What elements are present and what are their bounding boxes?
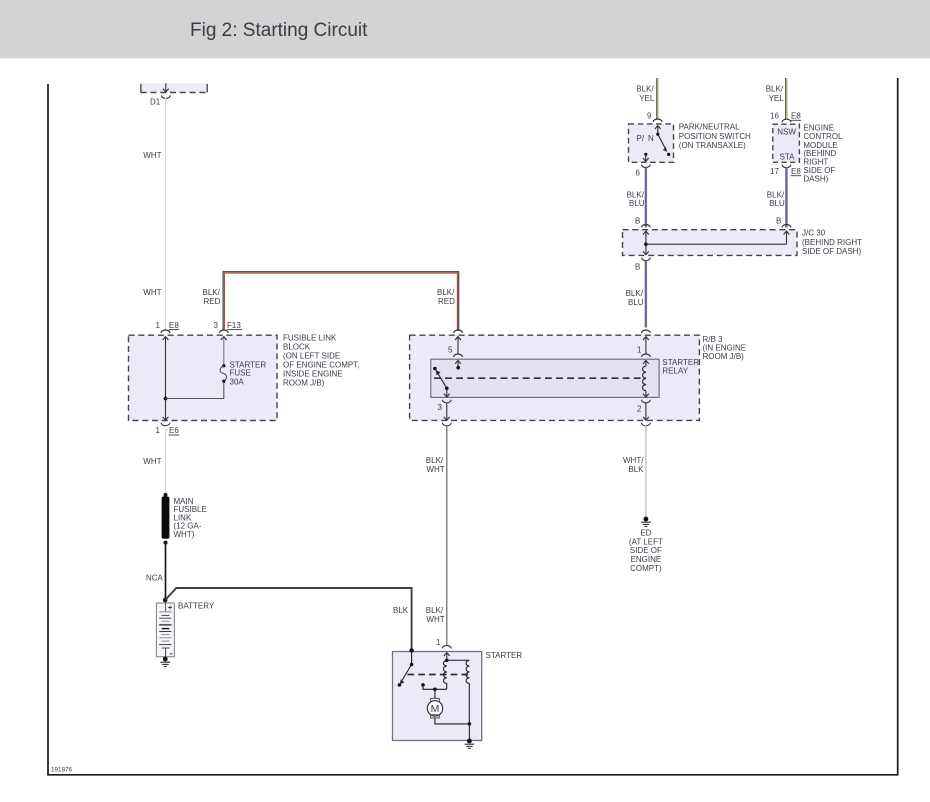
ground ED: [641, 517, 651, 527]
svg-text:J/C 30: J/C 30: [802, 229, 826, 238]
svg-text:E8: E8: [791, 167, 801, 176]
svg-text:YEL: YEL: [639, 94, 655, 103]
svg-text:BLK/: BLK/: [426, 456, 444, 465]
svg-text:NSW: NSW: [777, 128, 796, 137]
park/neutral position switch box: [629, 124, 674, 162]
svg-text:BLU: BLU: [628, 298, 644, 307]
title bar: [0, 0, 930, 58]
label E8 (underlined, bottom): [791, 167, 802, 176]
svg-text:BLK/: BLK/: [627, 190, 645, 199]
svg-text:WHT/: WHT/: [623, 456, 644, 465]
label E8 (underlined): [169, 321, 180, 330]
svg-text:RELAY: RELAY: [662, 366, 688, 375]
wire BLK/YEL to park/neutral switch: [657, 78, 659, 119]
wire pin3 down to fuse: [223, 337, 225, 365]
svg-text:BLU: BLU: [769, 199, 785, 208]
label E6 (underlined): [169, 426, 180, 435]
label BLK/RED (right): [437, 288, 455, 306]
starter box: [393, 652, 482, 741]
starter solenoid top link wire: [447, 659, 470, 661]
relay switch blade: [433, 367, 449, 390]
wire BLK/RED black strand: [223, 272, 459, 331]
wire BLK/BLU J/C30 to relay: [645, 260, 646, 327]
relay mechanical link (dashed): [434, 377, 646, 379]
starter ground: [465, 739, 475, 749]
label BLK/YEL (right): [766, 85, 785, 103]
wire BLK/BLU switch to J/C30: [645, 167, 646, 228]
label FUSIBLE LINK BLOCK note: [283, 333, 359, 387]
svg-text:BLK: BLK: [628, 465, 644, 474]
label P/ N: [637, 134, 655, 143]
svg-text:BLK: BLK: [393, 606, 409, 615]
WIRE WHT to main fusible link: [165, 428, 167, 495]
wire BLK/RED red strand: [224, 273, 457, 331]
svg-text:WHT: WHT: [143, 151, 161, 160]
junction dot: [164, 397, 168, 401]
wire fuse to junction: [166, 381, 224, 398]
label BLK/BLU (right upper): [767, 190, 785, 208]
svg-text:BLOCK: BLOCK: [283, 342, 311, 351]
svg-text:3: 3: [214, 321, 219, 330]
starter pin 1 connector: [442, 645, 451, 662]
svg-text:BLK/: BLK/: [767, 190, 785, 199]
label WHT/BLK: [623, 456, 644, 474]
label J/C 30 (BEHIND RIGHT SIDE OF DASH): [802, 229, 862, 256]
svg-text:WHT: WHT: [426, 615, 444, 624]
pin 1 E8 connector: [161, 330, 170, 340]
pin 3 exit through relay edge: [442, 388, 451, 403]
pin 5 connector at relay edge: [454, 354, 463, 370]
svg-text:3: 3: [438, 403, 443, 412]
pin 2 exit through relay edge: [642, 391, 651, 403]
svg-text:BLU: BLU: [629, 199, 645, 208]
svg-text:RED: RED: [204, 297, 221, 306]
label BLK/BLU (lower): [626, 289, 644, 307]
svg-text:WHT: WHT: [426, 465, 444, 474]
svg-text:1: 1: [156, 426, 161, 435]
svg-text:ED: ED: [640, 529, 651, 538]
component D1 (cut-off box at top): [141, 83, 208, 92]
svg-text:BLK/: BLK/: [437, 288, 455, 297]
J/C30 bottom pin B exit: [642, 251, 651, 260]
starter hold-in coil: [466, 660, 469, 724]
svg-text:(BEHIND RIGHT: (BEHIND RIGHT: [802, 238, 862, 247]
svg-text:FUSIBLE LINK: FUSIBLE LINK: [283, 333, 337, 342]
label BLK/WHT (upper): [426, 456, 445, 474]
wire BLK battery to starter: [165, 588, 411, 650]
svg-text:1: 1: [156, 321, 161, 330]
svg-text:1: 1: [637, 345, 642, 354]
svg-text:WHT: WHT: [143, 288, 161, 297]
svg-text:WHT: WHT: [143, 457, 161, 466]
pin 16 connector arc: [782, 119, 791, 122]
battery ground: [161, 657, 171, 667]
svg-text:1: 1: [436, 638, 441, 647]
pin 1 E6 exit arrow: [161, 417, 170, 426]
P/N switch bottom terminal: [641, 153, 650, 168]
pin 1 connector at relay edge: [642, 354, 651, 366]
J/C30 internal bus wire: [646, 243, 787, 245]
svg-text:BLK/: BLK/: [766, 85, 784, 94]
label ENGINE CONTROL MODULE (BEHIND RIGHT SIDE OF DASH): [803, 124, 843, 184]
label STARTER RELAY: [662, 358, 699, 376]
motor M: [427, 698, 442, 718]
wire NCA black to battery: [165, 543, 167, 603]
junction coil/motor ground: [468, 722, 472, 741]
svg-text:(ON LEFT SIDE: (ON LEFT SIDE: [283, 351, 340, 360]
svg-text:BLK/: BLK/: [426, 606, 444, 615]
svg-text:E8: E8: [169, 321, 179, 330]
svg-text:E6: E6: [169, 426, 179, 435]
svg-text:BLK/: BLK/: [203, 288, 221, 297]
junction connector J/C 30 box: [623, 230, 798, 256]
svg-text:B: B: [635, 262, 640, 271]
svg-text:FUSE: FUSE: [230, 368, 251, 377]
svg-text:RED: RED: [438, 297, 455, 306]
frame bottom line: [47, 774, 898, 776]
starter fuse 30A: [220, 364, 226, 383]
battery: [156, 603, 174, 657]
svg-text:POSITION SWITCH: POSITION SWITCH: [679, 132, 751, 141]
relay box R/B 3 (dashed): [410, 335, 700, 420]
wire WHT/BLK relay to ground: [645, 425, 647, 518]
svg-text:17: 17: [770, 167, 779, 176]
svg-text:(ON TRANSAXLE): (ON TRANSAXLE): [679, 141, 746, 150]
svg-text:191876: 191876: [51, 767, 73, 774]
svg-text:PARK/NEUTRAL: PARK/NEUTRAL: [679, 123, 740, 132]
svg-text:P/: P/: [637, 134, 645, 143]
label F13 (underlined): [227, 321, 242, 330]
junction to motor: [433, 688, 437, 699]
starter motor contact: [421, 683, 447, 689]
svg-text:5: 5: [448, 345, 453, 354]
engine control module box: [773, 124, 800, 162]
D1 pin arrow into connector: [161, 83, 170, 98]
main fusible link (black bar): [162, 493, 170, 545]
label E8 (underlined, top): [791, 112, 802, 121]
fusible link block (dashed box): [129, 335, 278, 420]
label BLK/WHT (lower): [426, 606, 445, 624]
label BLK/BLU (left upper): [627, 190, 645, 208]
svg-text:ROOM J/B): ROOM J/B): [703, 352, 745, 361]
label BLK/YEL (left): [636, 85, 655, 103]
pin 1 connector at R/B3 edge: [642, 330, 651, 353]
svg-text:SIDE OF DASH): SIDE OF DASH): [802, 247, 861, 256]
P/N switch top terminal arrow: [655, 126, 661, 136]
motor ground wire: [435, 718, 470, 724]
svg-text:N: N: [648, 134, 654, 143]
svg-text:BLK/: BLK/: [626, 289, 644, 298]
svg-text:INSIDE ENGINE: INSIDE ENGINE: [283, 369, 343, 378]
starter switch input junction: [409, 648, 413, 666]
label PARK/NEUTRAL POSITION SWITCH (ON TRANSAXLE): [679, 123, 751, 150]
svg-text:BATTERY: BATTERY: [178, 601, 215, 610]
svg-text:B: B: [776, 217, 781, 226]
J/C30 right pin B connector: [782, 225, 791, 245]
svg-text:ROOM J/B): ROOM J/B): [283, 378, 325, 387]
P/N switch blade: [658, 134, 671, 156]
svg-text:COMPT): COMPT): [630, 564, 662, 573]
pin 5 connector at R/B3 edge: [454, 330, 463, 353]
wire inside block pin1 down: [165, 337, 167, 419]
wire BLK/BLU ECM to J/C30: [786, 167, 787, 227]
svg-text:YEL: YEL: [769, 94, 785, 103]
svg-text:F13: F13: [227, 321, 241, 330]
svg-text:SIDE OF: SIDE OF: [630, 546, 662, 555]
frame right line: [897, 78, 899, 775]
svg-text:OF ENGINE COMPT,: OF ENGINE COMPT,: [283, 360, 359, 369]
svg-text:WHT): WHT): [174, 530, 195, 539]
starter relay inner box: [431, 359, 659, 397]
label R/B 3 (IN ENGINE ROOM J/B): [703, 335, 747, 361]
pin 2 exit through R/B3 edge: [642, 403, 651, 426]
svg-text:M: M: [431, 703, 440, 715]
svg-text:STARTER: STARTER: [486, 651, 523, 660]
pin 17 connector arc: [782, 165, 791, 168]
starter switch blade: [398, 664, 412, 686]
wire BLK/WHT relay to starter: [446, 425, 448, 646]
label STARTER FUSE 30A: [230, 360, 267, 386]
svg-text:D1: D1: [150, 98, 161, 107]
pin 3 exit through R/B3 edge: [442, 403, 451, 426]
pin 3 F13 connector: [219, 330, 228, 340]
svg-text:B: B: [635, 217, 640, 226]
svg-text:DASH): DASH): [803, 175, 828, 184]
wire WHT from D1 to fusible link block: [165, 98, 167, 330]
wire BLK/YEL to ECM: [786, 78, 788, 119]
svg-text:2: 2: [637, 405, 642, 414]
svg-text:STA: STA: [780, 153, 796, 162]
svg-text:6: 6: [636, 168, 641, 177]
label BLK/RED (left): [203, 288, 221, 306]
svg-text:NCA: NCA: [146, 574, 164, 583]
J/C30 bus junction dot: [644, 242, 648, 246]
starter pull-in coil: [443, 660, 446, 689]
svg-text:9: 9: [647, 112, 652, 121]
svg-text:16: 16: [770, 112, 779, 121]
junction dot battery positive: [163, 598, 168, 603]
relay coil: [643, 366, 646, 391]
label MAIN FUSIBLE LINK (12 GA-WHT): [174, 497, 207, 539]
label ED (AT LEFT SIDE OF ENGINE COMPT): [629, 529, 663, 574]
svg-text:ENGINE: ENGINE: [631, 555, 662, 564]
pin 9 connector arc: [653, 119, 662, 122]
starter mechanical link (dashed): [408, 674, 470, 676]
svg-text:E8: E8: [791, 112, 801, 121]
svg-text:Fig 2: Starting Circuit: Fig 2: Starting Circuit: [190, 20, 368, 41]
J/C30 left pin B connector: [642, 225, 651, 254]
frame left line: [47, 84, 49, 775]
svg-text:BLK/: BLK/: [636, 85, 654, 94]
svg-text:30A: 30A: [230, 377, 245, 386]
